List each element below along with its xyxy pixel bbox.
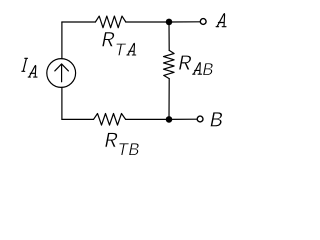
wire left vertical upper [61, 22, 63, 59]
wire bottom middle to junction [126, 118, 169, 120]
label R_TB subscript TB [119, 143, 129, 155]
terminal A open circle [200, 19, 206, 25]
terminal B open circle [197, 116, 203, 122]
wire vertical branch upper [168, 22, 170, 50]
wire top middle to junction [126, 21, 169, 23]
label I_A subscript A [28, 65, 37, 77]
wire left vertical lower [61, 87, 63, 119]
wire vertical branch lower [168, 79, 170, 120]
label R_TA subscript TA [116, 43, 126, 55]
current source arrow head [55, 64, 69, 71]
label R_TA main R [102, 32, 114, 46]
label R_AB subscript AB [193, 63, 202, 75]
resistor R_TA zigzag [95, 16, 125, 28]
wire bottom-left horizontal segment [62, 118, 94, 120]
label R_TB main R [105, 133, 117, 147]
wire top-left horizontal segment [62, 21, 96, 23]
current source arrow shaft [61, 65, 63, 82]
label R_AB main R [179, 55, 191, 69]
resistor R_AB zigzag [164, 50, 175, 78]
node junction dot top [166, 19, 173, 26]
current source I_A circle [47, 59, 76, 88]
label terminal A [216, 14, 226, 27]
wire junction to terminal B [169, 118, 197, 120]
node junction dot bottom [166, 116, 173, 123]
label terminal B [210, 112, 222, 126]
resistor R_TB zigzag [94, 114, 126, 126]
wire junction to terminal A [169, 21, 200, 23]
label I_A main I [22, 58, 28, 71]
